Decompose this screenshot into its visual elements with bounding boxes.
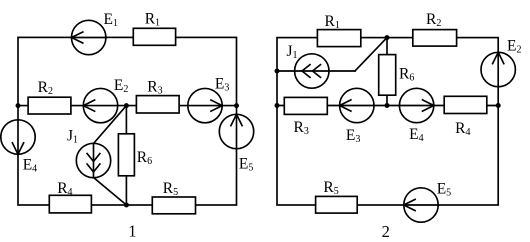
svg-text:1: 1 <box>128 221 136 240</box>
svg-text:2: 2 <box>382 222 390 241</box>
